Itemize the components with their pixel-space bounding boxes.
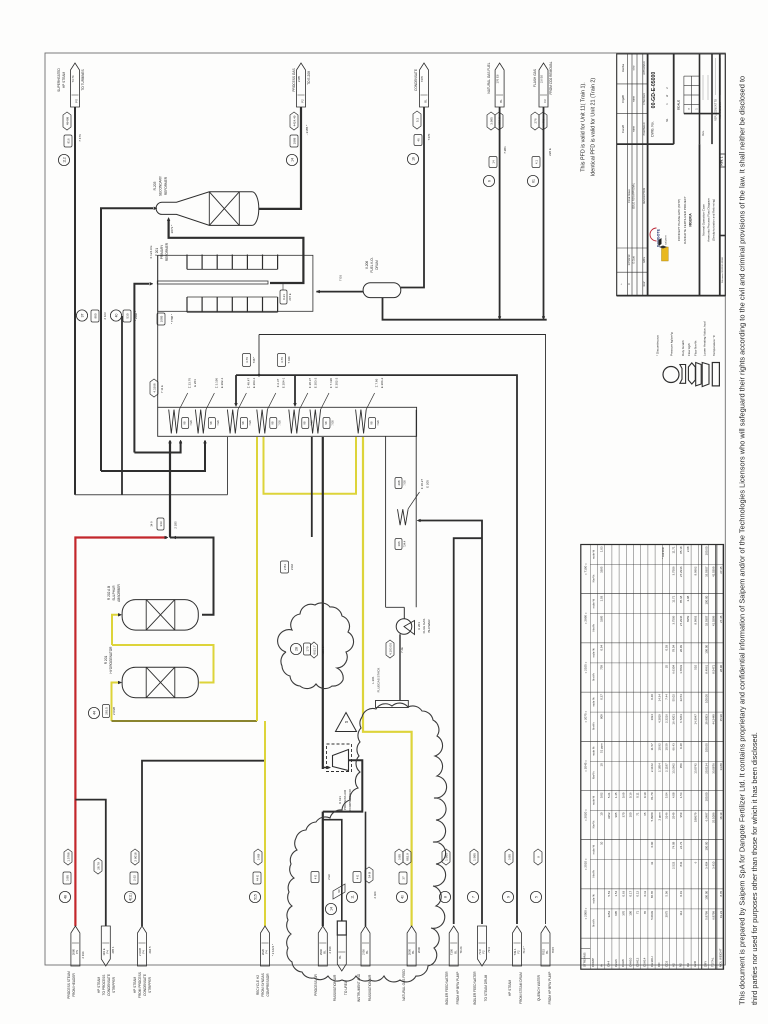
wire: boiler feed water from E-205 to steam drum [454, 538, 482, 924]
value flag on E-202-2 downcomer [281, 561, 295, 573]
svg-text:14: 14 [290, 158, 294, 162]
svg-text:PS: PS [75, 950, 79, 954]
svg-text:L 201: L 201 [371, 676, 375, 684]
svg-text:1.54: 1.54 [614, 891, 618, 897]
wire: blower discharge to stack [399, 634, 401, 700]
legend: discontinuous symbol and units [656, 321, 720, 387]
svg-text:298: 298 [397, 480, 401, 485]
svg-text:E 205: E 205 [426, 480, 430, 488]
svg-text:7470: 7470 [420, 75, 424, 82]
svg-text:79 4: 79 4 [487, 947, 491, 953]
svg-text:P2: P2 [301, 99, 305, 103]
stream flag: NATURAL GAS FEED [395, 849, 421, 1001]
svg-text:27.45: 27.45 [719, 566, 723, 574]
svg-text:3.7506: 3.7506 [672, 566, 676, 575]
svg-text:530: 530 [125, 313, 129, 318]
svg-text:« 2000 »: « 2000 » [584, 907, 588, 919]
svg-text:905: 905 [614, 812, 618, 817]
svg-text:K 421: K 421 [338, 796, 342, 804]
svg-text:3146: 3146 [665, 812, 669, 819]
svg-text:7 446: 7 446 [287, 356, 291, 363]
svg-text:48498: 48498 [65, 116, 69, 125]
svg-text:4 E: 4 E [355, 875, 359, 880]
svg-text:759: 759 [600, 665, 604, 670]
stream flag: RECYCLE H2 FROM SYNGAS COMPRESSOR [249, 849, 275, 997]
svg-text:G.Curti: G.Curti [633, 256, 636, 264]
svg-text:nome: nome [633, 95, 636, 102]
svg-text:of: of [665, 95, 669, 97]
svg-text:13.0742: 13.0742 [693, 763, 697, 774]
svg-text:2 466: 2 466 [373, 891, 377, 898]
svg-text:BLOWER: BLOWER [427, 619, 431, 633]
svg-text:3.410: 3.410 [711, 861, 715, 869]
svg-text:7 E6: 7 E6 [339, 275, 343, 282]
svg-text:7 2E: 7 2E [400, 647, 404, 653]
stream flag: BOILER FEED WATER FROM HP BFW PUMP [439, 849, 463, 1005]
svg-text:This PFD is valid for Unit 11(: This PFD is valid for Unit 11( Train 1). [581, 82, 587, 171]
svg-text:E 202-2: E 202-2 [335, 377, 339, 388]
wire: mixed feed into F-201 tubes [134, 284, 149, 453]
furnace F-201 primary reformer enclosure [158, 255, 313, 311]
svg-text:228 E: 228 E [548, 148, 552, 156]
wire: feed line continues to E-202-1 coil [101, 441, 205, 471]
flue gas duct from convection bank down to stack [385, 436, 387, 607]
svg-text:Σ 28.37: Σ 28.37 [308, 378, 312, 389]
svg-text:DRUM: DRUM [375, 260, 379, 270]
svg-text:3 B5: 3 B5 [507, 854, 511, 861]
svg-text:PROCESS GAS: PROCESS GAS [292, 68, 296, 91]
svg-text:10.92: 10.92 [657, 743, 661, 751]
stream table [581, 545, 724, 970]
svg-text:SECONDARY: SECONDARY [159, 175, 163, 196]
stream flag: INSTRUMENT AND PASSIVATION AIR [346, 867, 377, 1002]
svg-text:0.12: 0.12 [636, 891, 640, 897]
svg-text:40: 40 [400, 895, 404, 899]
svg-text:« 2075 »: « 2075 » [584, 711, 588, 723]
svg-text:7470: 7470 [427, 133, 431, 140]
svg-text:79 26: 79 26 [459, 946, 463, 953]
svg-text:207 E: 207 E [288, 293, 292, 300]
svg-text:0.90: 0.90 [650, 841, 654, 847]
svg-text:4(11): 4(11) [128, 893, 132, 901]
svg-text:515: 515 [253, 894, 257, 900]
svg-text:66.43: 66.43 [672, 743, 676, 751]
svg-text:« 2020 »: « 2020 » [584, 809, 588, 821]
svg-text:PASSIVATION AIR: PASSIVATION AIR [333, 974, 337, 1001]
value box on F-201 tube outlet [280, 284, 292, 304]
svg-text:saipem: saipem [663, 235, 667, 245]
svg-text:TOTAL: TOTAL [711, 957, 715, 967]
svg-text:HP STEAM: HP STEAM [133, 977, 137, 994]
svg-text:CONDENSATE: CONDENSATE [143, 974, 147, 996]
svg-text:BL: BL [545, 950, 549, 954]
wire: yellow NG from feed flag up to coil E-204-2 [363, 437, 412, 926]
value flags inside upper cloud [290, 642, 325, 658]
wire: natural gas feed into R-201 [112, 683, 120, 722]
svg-text:8.4961: 8.4961 [704, 665, 708, 674]
wire: coil leg verticals below convection bank [311, 437, 313, 537]
stack L-201 flue gas stack [371, 668, 408, 708]
wire: yellow NG loop coil E-204-1 leg down to header [256, 437, 258, 721]
svg-text:FROM PROCESS: FROM PROCESS [138, 972, 142, 998]
svg-text:« 2045 »: « 2045 » [584, 760, 588, 772]
wire: flash gas line from top flag to V-206 header [543, 107, 545, 317]
svg-text:BOILER FEED WATER: BOILER FEED WATER [445, 971, 449, 1005]
svg-text:100.00: 100.00 [704, 595, 708, 604]
svg-text:This document is prepared by S: This document is prepared by Saipem SpA … [738, 76, 747, 1005]
svg-text:FROM STEAM DRUM: FROM STEAM DRUM [519, 972, 523, 1004]
svg-text:ABSORBER: ABSORBER [117, 583, 121, 601]
heat exchanger coil E-205 in flue duct [395, 478, 430, 550]
svg-text:NATURAL GAS FEED: NATURAL GAS FEED [402, 969, 406, 1001]
svg-text:14: 14 [491, 160, 495, 164]
svg-text:8.70: 8.70 [719, 891, 723, 897]
svg-text:37: 37 [80, 314, 84, 318]
svg-text:188679: 188679 [693, 812, 697, 822]
svg-text:CH3OH: CH3OH [650, 956, 654, 967]
svg-text:FROM HEADER: FROM HEADER [72, 973, 76, 997]
svg-text:809: 809 [600, 714, 604, 719]
svg-text:1 B95: 1 B95 [472, 853, 476, 861]
svg-text:8.5471: 8.5471 [711, 665, 715, 674]
svg-text:1.7833: 1.7833 [679, 665, 683, 674]
svg-text:TO TURBINES: TO TURBINES [81, 69, 85, 90]
svg-text:11.57: 11.57 [650, 743, 654, 750]
svg-text:mole %: mole % [592, 845, 596, 855]
svg-text:2 E6: 2 E6 [327, 874, 331, 880]
svg-text:29.8003: 29.8003 [704, 714, 708, 725]
svg-text:BOILER FEED WATER: BOILER FEED WATER [473, 971, 477, 1005]
svg-text:DWG. No.: DWG. No. [651, 121, 655, 137]
svg-text:3.995: 3.995 [489, 117, 493, 125]
svg-text:370: 370 [621, 911, 625, 916]
svg-text:0.02: 0.02 [600, 792, 604, 798]
svg-text:SULPHUR: SULPHUR [112, 585, 116, 601]
svg-text:HP STEAM: HP STEAM [508, 980, 512, 997]
svg-text:TO E-208: TO E-208 [307, 71, 311, 85]
svg-text:1085: 1085 [159, 315, 163, 322]
svg-text:0.19: 0.19 [679, 891, 683, 897]
stream flag: NATURAL GAS FUEL [483, 62, 507, 186]
svg-text:H2: H2 [672, 963, 676, 967]
svg-text:6.8799: 6.8799 [711, 911, 715, 920]
svg-text:CONCEPT PHASE EPC (NITP): CONCEPT PHASE EPC (NITP) [677, 199, 681, 241]
svg-text:100.00: 100.00 [704, 841, 708, 850]
wire: fuel gas header to R-201 train (dark) [112, 720, 258, 722]
svg-text:1 B95: 1 B95 [444, 853, 448, 861]
svg-text:841: 841 [679, 861, 683, 866]
svg-text:2 9018: 2 9018 [133, 852, 137, 862]
wire: yellow jumper between coils [264, 437, 357, 494]
wire: process steam red line from header [75, 538, 167, 927]
svg-text:F4: F4 [105, 950, 109, 954]
svg-text:CONDENSATE: CONDENSATE [414, 69, 418, 91]
svg-text:* 2 1621 *: * 2 1621 * [271, 943, 275, 956]
svg-text:882.9: 882.9 [405, 853, 409, 861]
svg-text:ISSUE FOR APPROVAL: ISSUE FOR APPROVAL [633, 182, 636, 209]
svg-text:100: 100 [629, 812, 633, 817]
svg-text:41.0299: 41.0299 [711, 615, 715, 626]
svg-text:13.80: 13.80 [719, 763, 723, 771]
svg-text:mole %: mole % [592, 795, 596, 805]
svg-text:0.10: 0.10 [643, 792, 647, 798]
svg-text:100.00: 100.00 [704, 546, 708, 555]
wire: HP steam to process condensate stripper [75, 800, 105, 926]
svg-text:2185: 2185 [297, 75, 301, 82]
svg-text:85.18: 85.18 [679, 546, 683, 554]
vessel R-205 secondary reformer [153, 175, 259, 225]
svg-text:20.99: 20.99 [679, 645, 683, 653]
svg-text:2.522: 2.522 [672, 861, 676, 869]
svg-text:276: 276 [533, 118, 537, 123]
svg-text:27.2936: 27.2936 [679, 566, 683, 577]
svg-text:PASSIVATION AIR: PASSIVATION AIR [368, 974, 372, 1001]
svg-text:28.90: 28.90 [719, 665, 723, 673]
svg-text:NATURAL GAS FUEL: NATURAL GAS FUEL [487, 62, 491, 93]
svg-text:2 163: 2 163 [103, 312, 107, 319]
svg-text:FROM SYNGAS: FROM SYNGAS [261, 973, 265, 997]
svg-text:Nm³/h: Nm³/h [592, 673, 596, 681]
svg-text:5: 5 [534, 896, 538, 898]
svg-text:REFORMER: REFORMER [164, 176, 168, 195]
svg-text:0.63: 0.63 [621, 891, 625, 897]
value boxes on R-205 feed line [76, 310, 107, 322]
svg-text:E 203-1: E 203-1 [252, 377, 256, 388]
svg-text:Nm³/h: Nm³/h [592, 771, 596, 779]
svg-text:916: 916 [66, 138, 70, 143]
svg-text:6.7263: 6.7263 [679, 714, 683, 723]
svg-text:7015: 7015 [551, 946, 555, 953]
svg-text:6.2487: 6.2487 [704, 812, 708, 821]
svg-text:REFORMER: REFORMER [165, 242, 169, 261]
svg-text:55.02: 55.02 [672, 694, 676, 702]
wire: fuel riser at F-201 [121, 316, 123, 495]
svg-text:0.94: 0.94 [600, 645, 604, 651]
svg-text:C2H6: C2H6 [614, 959, 618, 967]
svg-text:20.0134: 20.0134 [704, 763, 708, 774]
warning triangle 1 [336, 713, 357, 732]
svg-text:90: 90 [337, 889, 341, 893]
svg-text:15.90: 15.90 [719, 714, 723, 722]
svg-text:0.48: 0.48 [679, 743, 683, 749]
stream flag: FLASH GAS FROM CO2 REMOVAL [527, 61, 553, 186]
svg-text:5.8799: 5.8799 [704, 911, 708, 920]
svg-text:7 E6: 7 E6 [216, 420, 220, 426]
svg-text:Nm³/h: Nm³/h [592, 919, 596, 927]
svg-text:2.62: 2.62 [132, 875, 136, 881]
svg-text:Pressure kg/cm²g: Pressure kg/cm²g [669, 332, 673, 356]
svg-text:Σ 124.9 E: Σ 124.9 E [149, 245, 153, 258]
svg-text:CH4: CH4 [607, 961, 611, 967]
svg-text:TO PROCESS: TO PROCESS [102, 975, 106, 996]
svg-text:E 203-2: E 203-2 [313, 377, 317, 388]
svg-text:19.23: 19.23 [719, 911, 723, 919]
svg-text:3.76: 3.76 [245, 357, 249, 363]
svg-text:27.2936: 27.2936 [679, 615, 683, 626]
svg-text:C/gdB: C/gdB [621, 95, 625, 103]
stream flag: PROCESS AIR [311, 872, 332, 996]
stream flag: PROCESS GAS TO E-208 [286, 63, 311, 166]
heat exchanger coil E-202-2 in convection bank [310, 377, 339, 433]
svg-text:F4: F4 [265, 950, 269, 954]
wire: process air riser from flag through cloud to K-421 [322, 437, 324, 766]
svg-text:PROCESS STEAM: PROCESS STEAM [67, 971, 71, 999]
svg-text:0.11: 0.11 [636, 792, 640, 798]
svg-text:third parties nor used for pur: third parties nor used for purposes othe… [750, 732, 759, 1005]
svg-text:COMP: COMP [591, 958, 595, 967]
wire: recycle H2 riser joining header [264, 721, 266, 926]
svg-text:18.19: 18.19 [719, 812, 723, 820]
svg-text:H2O: H2O [693, 960, 697, 967]
svg-text:2 ppm: 2 ppm [657, 812, 661, 821]
svg-text:8.9992: 8.9992 [693, 566, 697, 575]
svg-text:10.59: 10.59 [665, 743, 669, 751]
wire: instrument air branch [365, 812, 367, 926]
svg-text:NIGERIA: NIGERIA [689, 213, 693, 227]
svg-text:R 202 A B: R 202 A B [107, 586, 111, 600]
svg-text:74 76: 74 76 [71, 75, 75, 82]
svg-text:PRIMARY: PRIMARY [160, 244, 164, 259]
svg-text:Nm³/h: Nm³/h [592, 820, 596, 828]
svg-text:2 B1: 2 B1 [283, 564, 287, 571]
svg-text:34 9: 34 9 [150, 521, 154, 527]
svg-text:Identical PFD is valid for Uni: Identical PFD is valid for Unit 21 (Trai… [591, 78, 597, 177]
svg-text:Ammonia Process Flow Diagram: Ammonia Process Flow Diagram [707, 198, 711, 242]
svg-text:78.04: 78.04 [672, 645, 676, 653]
svg-text:(Desulphurization and Reformin: (Desulphurization and Reforming) [712, 199, 716, 241]
svg-text:3 B5: 3 B5 [397, 854, 401, 861]
cloud: battery limit cloud around flue gas tie-in (upper) [278, 603, 354, 689]
svg-text:6.6304: 6.6304 [672, 665, 676, 674]
value boxes on F-201 feed line [157, 313, 174, 325]
svg-text:FUEL K.O.: FUEL K.O. [370, 257, 374, 272]
svg-text:5.0980: 5.0980 [650, 812, 654, 821]
wire: process gas from R-205 to top flag [259, 107, 301, 209]
svg-text:2.2216: 2.2216 [665, 714, 669, 723]
vessel V-206 fuel K.O. drum [363, 257, 401, 297]
wire: HP steam from process condensate stripper [142, 761, 265, 926]
svg-text:PROCESS AIR: PROCESS AIR [343, 789, 347, 810]
svg-text:2.1187: 2.1187 [665, 763, 669, 772]
svg-text:2549: 2549 [672, 812, 676, 819]
wire: K-421 discharge loop [323, 760, 363, 811]
svg-text:13.2962: 13.2962 [672, 763, 676, 774]
svg-text:* 2466 *: * 2466 * [134, 310, 138, 321]
svg-text:100: 100 [629, 911, 633, 916]
svg-text:Normal Operation Case: Normal Operation Case [702, 204, 706, 236]
svg-text:4.1: 4.1 [534, 160, 538, 165]
svg-text:74 2 *: 74 2 * [522, 945, 526, 953]
svg-text:3 KB: 3 KB [256, 854, 260, 861]
wire: transfer line F-201 to R-205 [169, 220, 304, 283]
svg-text:Nm³/h: Nm³/h [592, 722, 596, 730]
svg-text:0.69: 0.69 [621, 792, 625, 798]
svg-text:4.08: 4.08 [672, 792, 676, 798]
svg-text:Σ 7.86: Σ 7.86 [375, 378, 379, 387]
vessel R-201 hydrogenator [104, 646, 198, 698]
svg-text:285 1: 285 1 [111, 946, 115, 953]
svg-text:2 916: 2 916 [328, 946, 332, 953]
svg-text:F3: F3 [543, 99, 547, 103]
svg-text:HP STEAM: HP STEAM [62, 72, 66, 89]
svg-text:R 201: R 201 [104, 656, 108, 665]
svg-text:7 E6: 7 E6 [376, 420, 380, 426]
svg-text:7 11 E: 7 11 E [160, 385, 164, 393]
svg-text:DRY: DRY [704, 961, 708, 967]
stream flag: PROCESS STEAM FROM HEADER [59, 849, 85, 999]
svg-text:0.16: 0.16 [629, 792, 633, 798]
svg-text:V-206: V-206 [365, 261, 369, 270]
svg-text:8621.7: 8621.7 [312, 645, 316, 655]
svg-text:SCALE: SCALE [677, 100, 681, 110]
svg-text:54 B: 54 B [367, 872, 371, 878]
svg-text:2000: 2000 [417, 946, 421, 953]
svg-text:4424.49: 4424.49 [292, 115, 296, 126]
heat exchanger coil E-203-2 in convection bank [289, 377, 318, 433]
heat exchanger coil E-204-1 in convection bank [257, 377, 286, 433]
title block [617, 54, 726, 296]
blower U-201 flue gas blower [396, 619, 431, 635]
svg-text:32.0307: 32.0307 [704, 566, 708, 577]
svg-text:F2: F2 [517, 950, 521, 954]
svg-text:100.00: 100.00 [704, 694, 708, 703]
svg-text:Σ 23.76: Σ 23.76 [188, 378, 192, 389]
svg-text:TO UREA: TO UREA [344, 980, 348, 995]
stream flag: BOILER FEED WATER TO STEAM DRUM [467, 849, 491, 1005]
svg-text:7 E6: 7 E6 [403, 480, 407, 486]
wire: natural gas fuel line from top flag to V-206 header [499, 107, 501, 317]
svg-text:294 5: 294 5 [148, 946, 152, 953]
svg-text:Flow Nm³/h: Flow Nm³/h [693, 340, 697, 356]
svg-text:1888: 1888 [292, 137, 296, 144]
svg-text:7.981: 7.981 [503, 146, 507, 154]
svg-text:BL: BL [322, 950, 326, 954]
svg-text:28.79: 28.79 [96, 862, 100, 870]
drawing frame border [45, 53, 725, 965]
wire: superheated HP steam line from E-203 coil to top flag [74, 107, 76, 495]
wire: blower suction from duct bottom [403, 607, 405, 618]
svg-text:24.72: 24.72 [679, 841, 683, 849]
value flag on casing left edge [150, 379, 164, 397]
cloud: battery limit cloud around air/NG feed area (large lower) [287, 703, 447, 982]
svg-text:17/10/13: 17/10/13 [627, 254, 631, 265]
svg-text:1.45: 1.45 [614, 792, 618, 798]
svg-text:FLASH GAS: FLASH GAS [533, 69, 537, 87]
value flag on blower discharge [386, 640, 404, 658]
svg-text:Temperature °C: Temperature °C [712, 334, 716, 356]
svg-text:37: 37 [401, 876, 405, 880]
svg-text:Nm³/h: Nm³/h [592, 574, 596, 582]
svg-text:74.08: 74.08 [672, 841, 676, 849]
svg-text:100.00: 100.00 [704, 891, 708, 900]
svg-text:FROM HP BFW PUMP: FROM HP BFW PUMP [456, 972, 460, 1005]
svg-text:C5H12: C5H12 [636, 957, 640, 967]
svg-text:196: 196 [397, 541, 401, 546]
svg-text:mole %: mole % [592, 746, 596, 756]
svg-text:5.53: 5.53 [607, 891, 611, 897]
svg-text:4.2819: 4.2819 [657, 714, 661, 723]
convection bank (exchanger band) [158, 407, 417, 436]
svg-text:748 *: 748 * [252, 356, 256, 363]
svg-text:7 476: 7 476 [78, 134, 82, 142]
svg-text:3252: 3252 [607, 812, 611, 819]
svg-text:44.2449: 44.2449 [711, 714, 715, 725]
svg-text:U 201: U 201 [417, 622, 421, 630]
svg-text:C6H14: C6H14 [643, 957, 647, 967]
svg-text:2 KVB: 2 KVB [112, 707, 116, 715]
svg-text:File name 00-GD-E-05000: File name 00-GD-E-05000 [722, 256, 724, 282]
svg-text:7 E6: 7 E6 [331, 420, 335, 426]
